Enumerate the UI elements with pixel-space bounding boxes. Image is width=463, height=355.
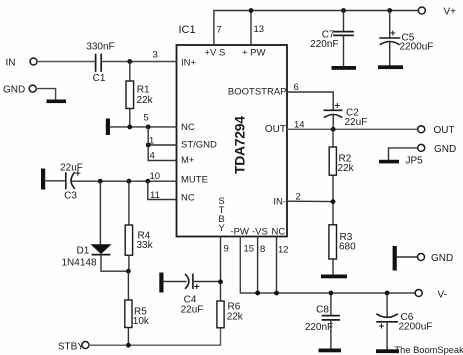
node D1/R4/R5 junction xyxy=(126,269,131,274)
resistor R2 xyxy=(329,129,336,225)
IC1 part name TDA7294 xyxy=(232,116,248,174)
label C4 xyxy=(184,295,197,306)
IC1 internal label OUT xyxy=(265,124,286,135)
svg-text:IC1: IC1 xyxy=(179,24,196,36)
ground bar signal ground near R1 xyxy=(106,119,110,136)
ground bar JP5 xyxy=(379,160,399,164)
label R5 xyxy=(134,307,147,318)
svg-text:3: 3 xyxy=(153,50,158,61)
ground bar signal ground near C3 xyxy=(41,169,45,190)
node pin8 junction xyxy=(255,291,260,296)
svg-text:33k: 33k xyxy=(137,240,154,251)
label D1 value 1N4148 xyxy=(62,258,97,269)
IC1 internal label MUTE xyxy=(181,175,208,186)
diode D1 1N4148 xyxy=(90,181,128,271)
wire ground bar to C3 xyxy=(45,180,66,182)
IC1 internal label -VS xyxy=(252,227,268,238)
node pin10 branch junction xyxy=(145,179,150,184)
label C5 value 2200uF xyxy=(400,42,434,53)
IC1 internal label +PW xyxy=(242,48,266,59)
label D1 xyxy=(77,246,90,257)
resistor R6 xyxy=(217,282,224,328)
label R2 xyxy=(339,154,352,165)
wire pin 13 xyxy=(250,11,252,46)
label C1 value 330nF xyxy=(86,42,114,53)
node pin1 branch junction xyxy=(146,143,151,148)
label R6 xyxy=(228,302,241,313)
wire pin 2 IN- xyxy=(287,200,333,202)
node C7 junction xyxy=(341,8,346,13)
svg-text:12: 12 xyxy=(278,245,289,256)
label C5 xyxy=(402,33,415,44)
svg-text:C1: C1 xyxy=(93,73,106,84)
IC1 internal label NC pin12 xyxy=(272,227,286,238)
wire V- rail xyxy=(240,237,415,294)
label R3 value 680 xyxy=(339,242,356,253)
svg-text:M+: M+ xyxy=(181,155,195,166)
pin 12 number xyxy=(278,245,289,256)
node C1/R1/pin3 junction xyxy=(127,59,132,64)
label C8 xyxy=(316,305,329,316)
svg-text:R1: R1 xyxy=(137,85,150,96)
ground under R3 xyxy=(321,275,347,279)
svg-text:Y: Y xyxy=(218,223,225,234)
svg-text:220nF: 220nF xyxy=(305,322,333,333)
node pin12 junction xyxy=(274,291,279,296)
label C7 value 220nF xyxy=(310,39,338,50)
pin 15 number xyxy=(244,244,255,255)
node R1 bottom junction xyxy=(127,125,132,130)
label C7 xyxy=(322,30,335,41)
wire ground bar to C4 xyxy=(164,281,187,283)
resistor R3 xyxy=(329,225,337,275)
label C4 value 22uF xyxy=(181,305,204,316)
capacitor C4 electrolytic xyxy=(186,275,199,289)
pin 5 number xyxy=(144,113,149,124)
svg-text:IN+: IN+ xyxy=(181,58,197,69)
node C5 junction xyxy=(387,8,392,13)
wire GND terminal to ground xyxy=(36,89,55,100)
ground under C5 xyxy=(378,65,403,69)
label R6 value 22k xyxy=(227,312,244,323)
svg-text:C8: C8 xyxy=(316,305,329,316)
IC1 internal label IN+ xyxy=(181,58,197,69)
terminal GND top-left xyxy=(3,85,36,96)
ground under C8 xyxy=(319,349,342,353)
node R2/R3/pin2 junction xyxy=(331,199,336,204)
label JP5 xyxy=(406,156,424,167)
svg-text:7: 7 xyxy=(217,25,222,36)
IC1 internal label IN- xyxy=(273,197,286,208)
svg-text:NC: NC xyxy=(181,122,195,133)
wire IN to C1 xyxy=(37,61,95,63)
capacitor C7 xyxy=(334,11,353,67)
node pin9/C4/R6 junction xyxy=(218,279,223,284)
svg-text:TDA7294: TDA7294 xyxy=(232,116,248,174)
terminal V+ xyxy=(418,7,456,18)
node pin13 junction xyxy=(249,8,254,13)
pin 14 number xyxy=(294,120,305,131)
svg-text:22k: 22k xyxy=(137,95,154,106)
svg-text:10: 10 xyxy=(150,171,161,182)
svg-text:22k: 22k xyxy=(338,163,355,174)
ground symbol top-left xyxy=(47,100,67,104)
capacitor C5 electrolytic xyxy=(380,11,400,66)
svg-text:1N4148: 1N4148 xyxy=(62,258,97,269)
pin 2 number xyxy=(296,192,301,203)
svg-text:ST/GND: ST/GND xyxy=(181,140,217,151)
watermark The BoomSpeaker xyxy=(395,345,463,355)
label C3 xyxy=(64,191,77,202)
label C8 value 220nF xyxy=(305,322,333,333)
label R5 value 10k xyxy=(133,316,150,327)
IC1 internal label M+ xyxy=(181,155,195,166)
svg-text:The BoomSpeaker: The BoomSpeaker xyxy=(395,345,463,355)
terminal IN xyxy=(6,58,38,69)
pin 13 number xyxy=(254,24,265,35)
wire branch to pin 4 xyxy=(148,145,176,161)
pin 10 number xyxy=(150,171,161,182)
pin 9 number xyxy=(224,244,229,255)
svg-text:OUT: OUT xyxy=(434,125,455,136)
IC1 internal label -PW xyxy=(231,227,250,238)
node D1 top junction xyxy=(98,179,103,184)
IC1 reference label xyxy=(179,24,196,36)
IC1 internal label +VS xyxy=(205,48,226,59)
svg-text:MUTE: MUTE xyxy=(181,175,208,186)
terminal OUT xyxy=(418,125,455,136)
label C3 value 22uF xyxy=(60,163,83,174)
svg-text:+V S: +V S xyxy=(205,48,226,59)
node pin5 branch junction xyxy=(146,125,151,130)
ground under C6 xyxy=(376,349,399,353)
node C6 top junction xyxy=(385,291,390,296)
svg-text:NC: NC xyxy=(181,193,195,204)
wire branch to pin 11 xyxy=(148,181,177,199)
svg-text:IN: IN xyxy=(6,58,16,69)
wire to GND terminal right-mid xyxy=(397,256,418,258)
pin 8 number xyxy=(260,244,265,255)
capacitor C2 electrolytic xyxy=(324,104,341,130)
label R1 value 22k xyxy=(137,95,154,106)
pin 3 number xyxy=(153,50,158,61)
label R4 value 33k xyxy=(137,240,154,251)
svg-text:330nF: 330nF xyxy=(86,42,114,53)
IC1 internal label ST/GND xyxy=(181,140,217,151)
svg-text:NC: NC xyxy=(272,227,286,238)
svg-text:C3: C3 xyxy=(64,191,77,202)
pin 6 number xyxy=(294,82,299,93)
terminal STBY xyxy=(58,342,89,353)
wire OUT pin 14 xyxy=(287,128,418,130)
IC1 internal label NC pin11 xyxy=(181,193,195,204)
terminal V- xyxy=(415,290,447,301)
pin 4 number xyxy=(150,151,155,162)
ground under C7 xyxy=(332,66,357,70)
op-amp IC1 TDA7294 body xyxy=(177,45,288,237)
svg-text:IN-: IN- xyxy=(273,197,286,208)
capacitor C1 xyxy=(96,55,102,72)
svg-text:220nF: 220nF xyxy=(310,39,338,50)
svg-text:8: 8 xyxy=(260,244,265,255)
svg-text:2200uF: 2200uF xyxy=(399,322,433,333)
pin 1 number xyxy=(149,136,154,147)
wire pin 9 xyxy=(220,237,222,282)
svg-text:22k: 22k xyxy=(227,312,244,323)
node C8 top junction xyxy=(329,291,334,296)
IC1 internal label NC pin5 xyxy=(181,122,195,133)
pin 7 number xyxy=(217,25,222,36)
resistor R1 xyxy=(126,62,134,127)
svg-text:15: 15 xyxy=(244,244,255,255)
wire branch to pin 1 xyxy=(148,127,176,145)
wire pin 8 xyxy=(257,237,259,294)
svg-text:10k: 10k xyxy=(133,316,150,327)
wire pin 12 xyxy=(276,237,278,294)
label R2 value 22k xyxy=(338,163,355,174)
wire STBY line xyxy=(89,328,221,345)
label R3 xyxy=(340,232,353,243)
svg-text:OUT: OUT xyxy=(265,124,286,135)
terminal GND JP5 xyxy=(418,144,457,155)
svg-text:9: 9 xyxy=(224,244,229,255)
svg-text:V-: V- xyxy=(438,290,447,301)
label C1 xyxy=(93,73,106,84)
svg-text:BOOTSTRAP: BOOTSTRAP xyxy=(228,87,287,98)
svg-text:JP5: JP5 xyxy=(406,156,424,167)
wire MUTE net C3 to pin 10 xyxy=(73,180,177,182)
wire bootstrap pin 6 to C2 xyxy=(287,92,333,110)
terminal GND right-mid xyxy=(418,253,454,264)
node R5 bottom junction xyxy=(126,343,131,348)
capacitor C6 electrolytic xyxy=(377,293,397,349)
svg-text:22uF: 22uF xyxy=(181,305,204,316)
svg-text:GND: GND xyxy=(431,253,453,264)
capacitor C8 xyxy=(323,293,340,349)
ground bar signal ground near C4 xyxy=(159,273,163,293)
ground bar right-mid xyxy=(393,246,397,271)
svg-text:22uF: 22uF xyxy=(345,117,368,128)
label C6 value 2200uF xyxy=(399,322,433,333)
resistor R5 xyxy=(125,271,132,345)
svg-text:STBY: STBY xyxy=(58,342,84,353)
svg-text:5: 5 xyxy=(144,113,149,124)
svg-text:13: 13 xyxy=(254,24,265,35)
pin 11 number xyxy=(150,190,160,201)
wire V+ rail xyxy=(214,11,419,46)
svg-text:680: 680 xyxy=(339,242,356,253)
label C2 value 22uF xyxy=(345,117,368,128)
label C2 xyxy=(346,108,359,119)
label R4 xyxy=(138,231,151,242)
wire C1 to pin 3 xyxy=(101,61,176,63)
svg-text:GND: GND xyxy=(434,144,456,155)
svg-text:22uF: 22uF xyxy=(60,163,83,174)
svg-text:D1: D1 xyxy=(77,246,90,257)
wire ground bar to pin 5 xyxy=(110,126,177,128)
node R4 top junction xyxy=(126,179,131,184)
capacitor C3 electrolytic xyxy=(66,171,80,189)
label R1 xyxy=(137,85,150,96)
svg-text:GND: GND xyxy=(3,85,25,96)
svg-text:V+: V+ xyxy=(444,7,457,18)
wire C4 to pin9 node xyxy=(193,281,221,283)
node C2/R2/OUT junction xyxy=(331,127,336,132)
wire JP5 xyxy=(389,148,419,160)
IC1 internal label STBY vertical xyxy=(218,196,225,234)
svg-text:+ PW: + PW xyxy=(242,48,266,59)
svg-text:2200uF: 2200uF xyxy=(400,42,434,53)
IC1 internal label BOOTSTRAP xyxy=(228,87,287,98)
resistor R4 xyxy=(125,181,132,271)
svg-text:-VS: -VS xyxy=(252,227,268,238)
label C6 xyxy=(401,312,414,323)
